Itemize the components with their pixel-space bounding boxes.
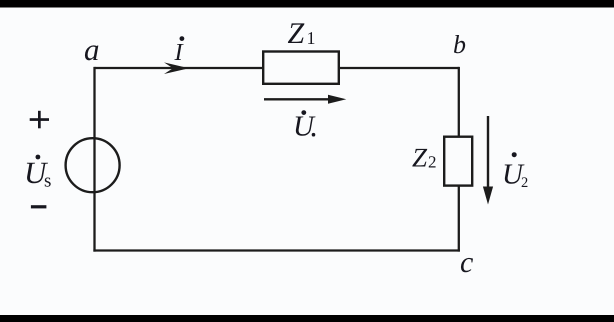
current arrow I (arrowhead on top wire) — [164, 62, 189, 74]
label Us (source voltage) — [24, 155, 51, 192]
svg-text:Z: Z — [288, 17, 305, 50]
impedance Z2 box — [444, 137, 472, 186]
svg-text:1: 1 — [307, 28, 316, 48]
wire bottom (c to source) — [93, 249, 460, 251]
wire top (a to b) — [95, 67, 459, 69]
voltage source Us circle — [66, 138, 120, 192]
svg-text:Z: Z — [412, 143, 428, 173]
label U2 — [502, 152, 528, 191]
voltage arrow U2 (down, right of Z2) — [483, 116, 493, 205]
label - (source negative) — [31, 205, 47, 208]
voltage arrow U1 (below Z1) — [264, 95, 346, 104]
label Z1 — [288, 17, 316, 50]
label U1 — [293, 110, 316, 143]
svg-text:U: U — [293, 111, 316, 143]
svg-text:b: b — [453, 30, 466, 59]
label Z2 — [412, 143, 437, 173]
wire right (b to c) — [458, 67, 460, 252]
wire left (a down through source) — [93, 67, 95, 252]
label I (current) — [174, 36, 185, 66]
svg-text:c: c — [460, 246, 473, 279]
svg-text:s: s — [44, 170, 51, 191]
top letterbox bar — [0, 0, 614, 8]
impedance Z1 box — [263, 52, 339, 84]
bottom letterbox bar — [0, 315, 614, 322]
svg-text:2: 2 — [428, 153, 437, 172]
svg-text:a: a — [84, 32, 100, 67]
label + (source positive) — [30, 111, 49, 129]
svg-text:2: 2 — [521, 175, 528, 191]
